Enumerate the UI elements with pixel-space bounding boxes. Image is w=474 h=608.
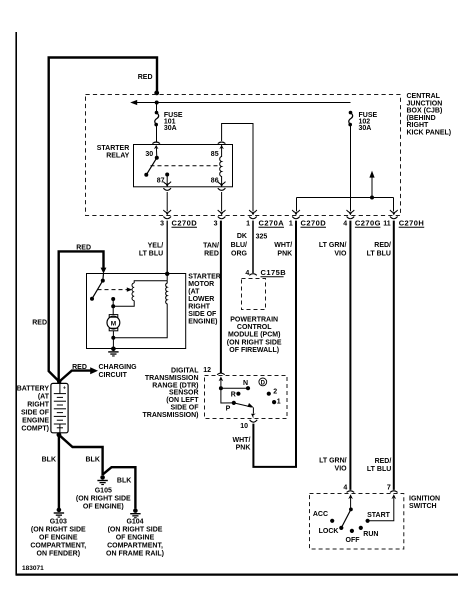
ground G105 xyxy=(97,475,107,485)
svg-text:R: R xyxy=(231,392,236,399)
DTR contact N xyxy=(246,386,250,390)
svg-text:SENSOR: SENSOR xyxy=(169,390,199,397)
svg-text:(ON RIGHT SIDE: (ON RIGHT SIDE xyxy=(31,526,86,533)
svg-text:IGNITION: IGNITION xyxy=(409,495,440,502)
svg-text:D: D xyxy=(261,381,266,387)
svg-text:ON FRAME RAIL): ON FRAME RAIL) xyxy=(106,551,164,558)
svg-text:RED/: RED/ xyxy=(374,242,391,249)
battery B1 xyxy=(51,383,68,432)
svg-text:7: 7 xyxy=(387,484,391,491)
svg-text:TRANSMISSION: TRANSMISSION xyxy=(145,375,199,382)
svg-text:RED/: RED/ xyxy=(375,458,392,465)
svg-text:RED: RED xyxy=(138,74,153,81)
ignition internal: arrow from pin 4 xyxy=(348,494,353,499)
svg-text:4: 4 xyxy=(343,221,347,228)
svg-text:(BEHIND: (BEHIND xyxy=(407,115,436,122)
svg-text:TRANSMISSION): TRANSMISSION) xyxy=(143,412,199,419)
svg-text:RELAY: RELAY xyxy=(106,152,129,159)
relay switch arm (open) xyxy=(146,158,157,175)
svg-text:C270D: C270D xyxy=(172,219,198,228)
svg-text:C270G: C270G xyxy=(355,219,381,228)
DTR junction dot xyxy=(219,386,223,390)
wire RED battery-to-CJB feed (left tall run) xyxy=(49,58,157,382)
svg-text:86: 86 xyxy=(211,177,219,184)
svg-text:STARTER: STARTER xyxy=(188,274,221,281)
connector C270A (pin 1) xyxy=(249,210,257,219)
svg-text:1: 1 xyxy=(277,398,281,405)
svg-text:RED: RED xyxy=(72,364,87,371)
svg-text:START: START xyxy=(367,512,391,519)
connector pin 3 (second) xyxy=(218,210,226,219)
wire YEL/LT BLU C270D-to-starter xyxy=(166,221,168,274)
svg-text:ENGINE): ENGINE) xyxy=(188,319,217,326)
svg-text:CENTRAL: CENTRAL xyxy=(407,93,441,100)
svg-text:RUN: RUN xyxy=(363,531,378,538)
starter switch arm (open) xyxy=(92,281,103,299)
svg-text:ACC: ACC xyxy=(313,511,328,518)
DTR wiper arm to output xyxy=(234,403,252,407)
connector C175B (pin 4) skirt xyxy=(249,274,257,276)
svg-text:WHT/: WHT/ xyxy=(274,242,292,249)
svg-text:RIGHT: RIGHT xyxy=(407,122,430,129)
svg-text:C175B: C175B xyxy=(261,268,287,277)
ignition contact RUN xyxy=(359,526,363,530)
svg-text:12: 12 xyxy=(203,367,211,374)
svg-text:BOX (CJB): BOX (CJB) xyxy=(407,108,443,115)
svg-text:CHARGING: CHARGING xyxy=(99,364,138,371)
svg-text:BLK: BLK xyxy=(117,477,131,484)
svg-text:LT BLU: LT BLU xyxy=(367,251,391,258)
wire DK BLU/ORG C270A-to-C175B xyxy=(252,221,254,273)
ignition switch arm xyxy=(349,508,353,512)
svg-text:30A: 30A xyxy=(164,125,177,132)
wire BLK battery-to-G103 xyxy=(58,435,60,508)
svg-text:ORG: ORG xyxy=(231,251,248,258)
label FUSE 102 30A xyxy=(359,112,378,132)
DTR contact P with feed xyxy=(221,388,234,403)
svg-text:1: 1 xyxy=(246,221,250,228)
svg-text:WHT/: WHT/ xyxy=(233,437,251,444)
wire RED/LT BLU C270H-to-ignition pin7 xyxy=(393,221,395,490)
starter pull-in coil (small) xyxy=(132,283,134,301)
fuse F102 xyxy=(348,111,352,127)
starter main winding (tall coil) xyxy=(113,281,167,338)
svg-text:JUNCTION: JUNCTION xyxy=(407,100,443,107)
ignition contact START with wire to pin 7 xyxy=(366,519,370,523)
wire bus-to-fuse101 xyxy=(156,103,158,113)
svg-text:4: 4 xyxy=(343,484,347,491)
powertrain control module PCM dashed box xyxy=(242,279,266,310)
svg-text:P: P xyxy=(226,406,231,413)
svg-text:SIDE OF: SIDE OF xyxy=(170,405,199,412)
svg-text:LT GRN/: LT GRN/ xyxy=(319,242,347,249)
svg-text:OF ENGINE: OF ENGINE xyxy=(116,535,155,542)
svg-text:(ON RIGHT SIDE: (ON RIGHT SIDE xyxy=(108,527,163,534)
svg-text:+: + xyxy=(63,385,66,391)
svg-text:C270A: C270A xyxy=(259,219,285,228)
wire RED to charging circuit with arrow xyxy=(59,371,90,382)
wire BLK battery-to-G105 xyxy=(59,435,103,475)
label G104 (ON RIGHT SIDE OF ENGINE COMPARTMENT, ON FRAME RAIL) xyxy=(106,519,164,558)
svg-text:325: 325 xyxy=(256,233,268,240)
svg-text:LT BLU: LT BLU xyxy=(139,251,163,258)
svg-text:RIGHT: RIGHT xyxy=(27,402,50,409)
starter motor contact dot xyxy=(111,297,115,301)
page bottom border xyxy=(16,573,459,575)
svg-text:OF ENGINE: OF ENGINE xyxy=(39,534,78,541)
battery junction dot (positive) xyxy=(57,379,61,383)
ignition contact OFF xyxy=(350,529,354,533)
svg-text:(AT: (AT xyxy=(38,394,50,401)
svg-text:3: 3 xyxy=(214,221,218,228)
wire motor top lead xyxy=(112,299,114,315)
svg-text:OF ENGINE): OF ENGINE) xyxy=(83,503,124,510)
battery negative junction dot xyxy=(57,432,62,437)
motor M1 xyxy=(109,315,118,318)
wire drop to C270G xyxy=(350,198,352,212)
wire CJB internal bus (thin) with left arrow xyxy=(132,102,351,104)
relay mechanical dashed link xyxy=(151,165,220,167)
connector C270D right (pin 1) xyxy=(292,210,300,219)
DTR contact 2 xyxy=(267,392,271,396)
wire fuse101-to-relay pin30 xyxy=(156,125,158,143)
svg-text:VIO: VIO xyxy=(334,251,347,258)
starter solenoid contact: feed dot xyxy=(101,279,105,283)
wire motor bottom lead xyxy=(112,331,114,349)
svg-text:RED: RED xyxy=(76,244,91,251)
ignition switch dashed box xyxy=(310,494,404,550)
svg-text:OFF: OFF xyxy=(346,537,361,544)
svg-text:M: M xyxy=(111,320,116,327)
svg-text:DK: DK xyxy=(237,233,247,240)
svg-text:LOWER: LOWER xyxy=(188,296,214,303)
relay pin 87 connector at box edge xyxy=(163,182,171,191)
svg-text:30: 30 xyxy=(145,151,153,158)
svg-text:LT GRN/: LT GRN/ xyxy=(319,457,347,464)
svg-text:SWITCH: SWITCH xyxy=(409,503,437,510)
wire RED battery-to-starter cable xyxy=(59,251,104,381)
svg-text:MOTOR: MOTOR xyxy=(188,281,214,288)
svg-text:4: 4 xyxy=(245,270,249,277)
svg-text:STARTER: STARTER xyxy=(97,145,130,152)
page left border xyxy=(15,32,17,575)
svg-text:87: 87 xyxy=(157,177,165,184)
DTR internal: arrow from pin 12 xyxy=(219,376,224,381)
wire LT GRN/VIO C270G-to-ignition pin4 xyxy=(349,221,351,490)
label G105 (ON RIGHT SIDE OF ENGINE) xyxy=(76,487,131,510)
node YEL entry dot on starter box edge xyxy=(165,272,169,276)
wire relay pin85 up-over-down to C270A (thin) xyxy=(222,124,253,212)
svg-text:LT BLU: LT BLU xyxy=(367,466,391,473)
wire relay pin86 down xyxy=(221,192,223,211)
wire small coil to motor lead xyxy=(113,301,134,307)
svg-text:COMPT): COMPT) xyxy=(21,426,49,433)
relay pin 87 contact xyxy=(165,173,169,177)
svg-text:SIDE OF: SIDE OF xyxy=(188,311,217,318)
svg-text:RANGE (DTR): RANGE (DTR) xyxy=(152,382,198,389)
svg-text:3: 3 xyxy=(160,221,164,228)
label POWERTRAIN CONTROL MODULE (PCM) xyxy=(227,317,282,354)
svg-text:ON FENDER): ON FENDER) xyxy=(37,550,81,557)
node junction dot on CJB border (RED feed) xyxy=(154,91,159,96)
starter motor box xyxy=(87,274,186,349)
DTR contact D (circled) xyxy=(259,378,267,386)
connector C270G (pin 4) xyxy=(347,210,355,219)
label G103 (ON RIGHT SIDE OF ENGINE COMPARTMENT, ON FENDER) xyxy=(30,518,86,557)
svg-text:CONTROL: CONTROL xyxy=(237,324,272,331)
connector C270H (pin 11) xyxy=(390,210,398,219)
svg-text:C270D: C270D xyxy=(301,219,327,228)
svg-text:30A: 30A xyxy=(359,125,372,132)
relay pin 85 connector xyxy=(218,142,226,149)
svg-text:MODULE (PCM): MODULE (PCM) xyxy=(228,332,281,339)
svg-text:85: 85 xyxy=(211,151,219,158)
fuse F101 xyxy=(154,111,158,127)
relay contact: line from pin30 arrow to pivot dot xyxy=(155,148,157,157)
svg-text:YEL/: YEL/ xyxy=(148,243,164,250)
svg-text:COMPARTMENT,: COMPARTMENT, xyxy=(107,543,163,550)
svg-text:C270H: C270H xyxy=(399,219,425,228)
wire CJB lower bus xyxy=(297,197,394,199)
svg-text:DIGITAL: DIGITAL xyxy=(171,368,199,375)
svg-text:(ON RIGHT SIDE: (ON RIGHT SIDE xyxy=(76,495,131,502)
label FUSE 101 30A xyxy=(164,112,183,132)
arrow RED entry into starter box xyxy=(101,268,107,274)
svg-text:RED: RED xyxy=(204,251,219,258)
svg-text:COMPARTMENT,: COMPARTMENT, xyxy=(30,542,86,549)
relay pin 86 connector at box edge xyxy=(218,182,226,191)
starter relay box xyxy=(134,145,233,187)
label DIGITAL TRANSMISSION RANGE (DTR) SENSOR xyxy=(143,368,200,419)
wire drop to C270H xyxy=(393,198,395,212)
DTR pin 10 connector xyxy=(250,420,258,422)
wire TAN/RED C270-to-DTR pin12 xyxy=(220,221,222,374)
wire YEL feed inside starter xyxy=(134,274,167,283)
DTR sensor dashed box xyxy=(205,376,288,419)
ignition internal: arrow from pin 7 xyxy=(392,494,397,499)
svg-text:VIO: VIO xyxy=(335,465,348,472)
svg-text:OF FIREWALL): OF FIREWALL) xyxy=(229,347,279,354)
svg-text:(ON RIGHT SIDE: (ON RIGHT SIDE xyxy=(227,339,282,346)
DTR contact R xyxy=(236,392,240,396)
DTR wire to N contact xyxy=(221,387,248,389)
svg-text:ENGINE: ENGINE xyxy=(22,418,49,425)
node junction dot bus/RED xyxy=(155,101,159,105)
node junction dot lower bus xyxy=(370,196,374,200)
svg-text:(AT: (AT xyxy=(188,289,200,296)
DTR contact 1 xyxy=(272,400,276,404)
svg-text:SIDE OF: SIDE OF xyxy=(21,410,50,417)
svg-text:G103: G103 xyxy=(50,518,67,525)
relay coil L1 between 85 and 86 xyxy=(220,144,222,186)
svg-text:183071: 183071 xyxy=(22,565,44,572)
svg-text:PNK: PNK xyxy=(236,445,251,452)
svg-text:PNK: PNK xyxy=(277,251,292,258)
svg-text:N: N xyxy=(243,380,248,387)
wire fuse102 down to lower bus xyxy=(350,125,352,198)
wire BLK branch-to-G104 xyxy=(103,467,136,508)
svg-text:G104: G104 xyxy=(126,519,143,526)
connector C270D (pin 3) xyxy=(163,210,171,219)
svg-text:BLK: BLK xyxy=(42,457,56,464)
wire WHT/PNK C270D-to-DTR pin10 xyxy=(253,221,296,467)
svg-text:(ON LEFT: (ON LEFT xyxy=(166,397,199,404)
svg-text:BLK: BLK xyxy=(86,457,100,464)
label CENTRAL JUNCTION BOX (CJB) xyxy=(407,93,452,137)
svg-text:POWERTRAIN: POWERTRAIN xyxy=(230,317,278,324)
DTR output to pin 10 with down arrow xyxy=(252,408,254,414)
wire drop to C270D(right) xyxy=(296,198,298,212)
svg-text:10: 10 xyxy=(240,423,248,430)
svg-text:TAN/: TAN/ xyxy=(203,243,219,250)
svg-text:2: 2 xyxy=(273,389,277,396)
wire stub with up arrow (to other circuits) xyxy=(371,176,373,198)
svg-text:RED: RED xyxy=(32,319,47,326)
ignition contact ACC xyxy=(330,519,334,523)
wire relay pin87 down to C270D xyxy=(166,192,168,211)
ground G104 xyxy=(130,508,140,518)
svg-text:BATTERY: BATTERY xyxy=(17,386,50,393)
svg-text:CIRCUIT: CIRCUIT xyxy=(99,372,128,379)
central junction box CJB dashed outline xyxy=(86,95,401,216)
ground at starter motor xyxy=(108,347,118,357)
relay pin 30 connector xyxy=(152,142,160,149)
svg-text:RIGHT: RIGHT xyxy=(188,304,211,311)
svg-text:1: 1 xyxy=(289,221,293,228)
starter mechanical dashed link with arrow xyxy=(98,289,129,291)
label STARTER MOTOR (AT LOWER RIGHT SIDE OF ENGINE) xyxy=(188,274,221,326)
svg-text:11: 11 xyxy=(383,221,391,228)
svg-text:LOCK: LOCK xyxy=(319,528,339,535)
label BATTERY (AT RIGHT SIDE OF ENGINE COMPT) xyxy=(17,386,50,433)
svg-text:KICK PANEL): KICK PANEL) xyxy=(407,130,452,137)
svg-text:BLU/: BLU/ xyxy=(231,242,247,249)
ground G103 xyxy=(54,508,64,518)
svg-text:G105: G105 xyxy=(95,487,112,494)
ignition contact LOCK xyxy=(339,526,343,530)
